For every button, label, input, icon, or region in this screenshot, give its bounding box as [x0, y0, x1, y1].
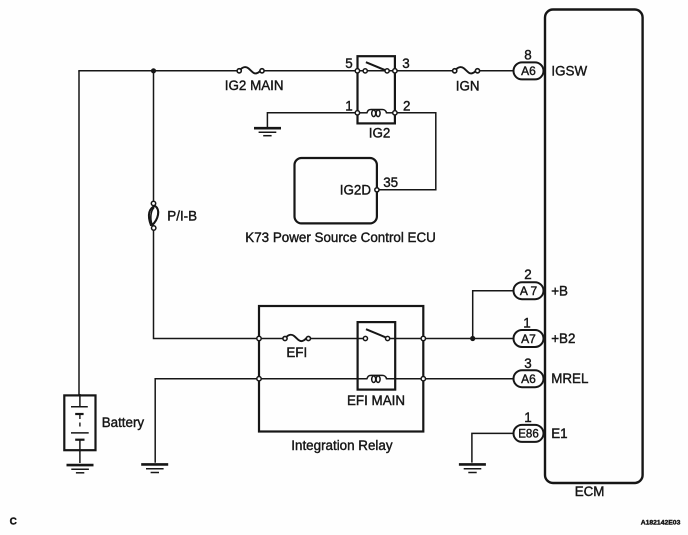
svg-text:A182142E03: A182142E03: [641, 519, 681, 526]
svg-text:1: 1: [523, 315, 530, 330]
svg-text:IG2 MAIN: IG2 MAIN: [225, 78, 284, 93]
wire +B branch up: [473, 291, 514, 339]
svg-text:K73 Power Source Control ECU: K73 Power Source Control ECU: [245, 230, 436, 245]
node junction dot +B branch: [470, 336, 475, 341]
ECM box: [545, 10, 643, 500]
svg-text:A7: A7: [521, 332, 536, 346]
relay IG2: [345, 56, 410, 141]
connector A6 IGSW: [514, 47, 588, 79]
wire integration relay left to fuse EFI: [261, 338, 283, 340]
svg-text:35: 35: [383, 175, 398, 190]
wire relay pin 1 to ground: [267, 113, 355, 127]
wire integration relay to +B2 connector: [426, 338, 515, 340]
svg-text:+B: +B: [551, 283, 568, 298]
svg-text:3: 3: [524, 356, 531, 371]
ground (battery): [67, 465, 94, 473]
wire E1 to ground: [472, 433, 514, 462]
wire battery feed vertical: [78, 71, 80, 396]
connector E86 E1: [514, 410, 568, 442]
svg-text:Integration Relay: Integration Relay: [291, 438, 393, 453]
wire fuse IGN to connector A6 IGSW: [480, 70, 514, 72]
wire coil row inside integration relay: [261, 378, 421, 380]
svg-text:MREL: MREL: [551, 371, 588, 386]
svg-text:IGN: IGN: [456, 79, 480, 94]
pin 1 terminal: [355, 111, 359, 115]
svg-text:IG2: IG2: [369, 126, 391, 141]
battery BAT: [64, 394, 144, 463]
svg-text:EFI MAIN: EFI MAIN: [347, 393, 405, 408]
connector A6 MREL: [514, 356, 589, 387]
wire relay pin 2 down to K73 pin 35: [379, 113, 436, 190]
svg-text:+B2: +B2: [551, 331, 575, 346]
svg-text:A 7: A 7: [520, 284, 538, 298]
connector A7 +B: [514, 267, 569, 299]
svg-text:Battery: Battery: [102, 415, 145, 430]
connector A7 +B2: [514, 315, 576, 347]
svg-text:3: 3: [402, 56, 409, 71]
terminal left bottom: [257, 377, 261, 381]
fuse IGN: [453, 67, 480, 93]
svg-text:C: C: [10, 517, 17, 528]
svg-text:IG2D: IG2D: [340, 182, 372, 197]
fusible link P/I-B: [149, 201, 197, 230]
svg-text:5: 5: [345, 56, 352, 71]
fuse IG2 MAIN: [225, 67, 284, 93]
pin 5 terminal: [355, 69, 359, 73]
svg-text:E86: E86: [518, 429, 538, 441]
Integration Relay box: [257, 306, 426, 453]
fuse EFI: [283, 335, 311, 360]
svg-text:E1: E1: [551, 426, 567, 441]
svg-text:8: 8: [524, 47, 531, 62]
ground (ECM E1): [459, 464, 486, 472]
wire EFI MAIN switch to integration relay right: [390, 338, 421, 340]
svg-text:IGSW: IGSW: [551, 64, 587, 79]
K73 Power Source Control ECU box U1: [295, 158, 399, 223]
svg-text:2: 2: [403, 98, 410, 113]
wire integration relay to MREL connector: [426, 378, 515, 380]
node junction dot top: [151, 68, 156, 73]
svg-text:1: 1: [345, 98, 352, 113]
wire P/I-B down and right to integration relay: [154, 230, 258, 338]
wire junction to P/I-B fusible link: [153, 71, 155, 202]
svg-text:1: 1: [524, 410, 531, 425]
ground (IG2 relay coil): [254, 128, 281, 136]
wire fuse EFI to relay EFI MAIN: [311, 338, 363, 340]
pin 35 terminal: [375, 188, 379, 192]
svg-text:A6: A6: [521, 372, 536, 386]
terminal right top: [421, 336, 425, 340]
svg-text:EFI: EFI: [286, 345, 307, 360]
relay EFI MAIN: [347, 322, 405, 408]
svg-text:A6: A6: [521, 64, 536, 78]
wire top horizontal from battery to fuse IG2 MAIN: [78, 70, 237, 72]
wire MREL branch with ground: [155, 379, 257, 463]
wire relay pin 3 to fuse IGN: [397, 70, 453, 72]
svg-text:2: 2: [524, 267, 531, 282]
svg-text:P/I-B: P/I-B: [167, 208, 197, 223]
terminal left top: [257, 336, 261, 340]
terminal right bottom: [421, 377, 425, 381]
ground (MREL branch): [141, 464, 168, 472]
pin 3 terminal: [393, 69, 397, 73]
wire fuse IG2 MAIN to relay pin 5: [264, 70, 355, 72]
svg-text:ECM: ECM: [575, 484, 605, 499]
pin 2 terminal: [393, 111, 397, 115]
